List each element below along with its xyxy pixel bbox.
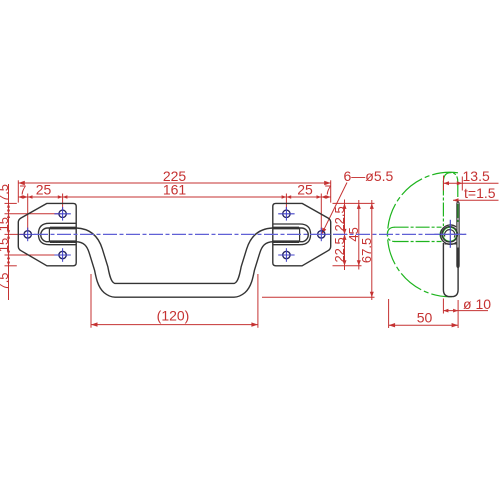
- svg-text:50: 50: [417, 310, 433, 326]
- svg-text:25: 25: [36, 182, 52, 198]
- svg-text:13.5: 13.5: [463, 168, 490, 184]
- svg-text:6—ø5.5: 6—ø5.5: [344, 168, 394, 184]
- svg-text:67.5: 67.5: [359, 238, 374, 263]
- svg-text:15: 15: [0, 238, 11, 252]
- svg-text:22.5: 22.5: [332, 237, 347, 262]
- svg-text:7.5: 7.5: [0, 272, 11, 290]
- svg-text:t=1.5: t=1.5: [464, 185, 496, 201]
- svg-text:ø 10: ø 10: [463, 296, 491, 312]
- svg-text:22.5: 22.5: [332, 206, 347, 231]
- svg-text:7.5: 7.5: [0, 184, 11, 202]
- svg-text:(120): (120): [157, 308, 190, 324]
- svg-text:7: 7: [325, 184, 332, 198]
- svg-text:161: 161: [163, 182, 187, 198]
- svg-text:25: 25: [297, 182, 313, 198]
- svg-text:15: 15: [0, 217, 11, 231]
- svg-text:7: 7: [19, 184, 26, 198]
